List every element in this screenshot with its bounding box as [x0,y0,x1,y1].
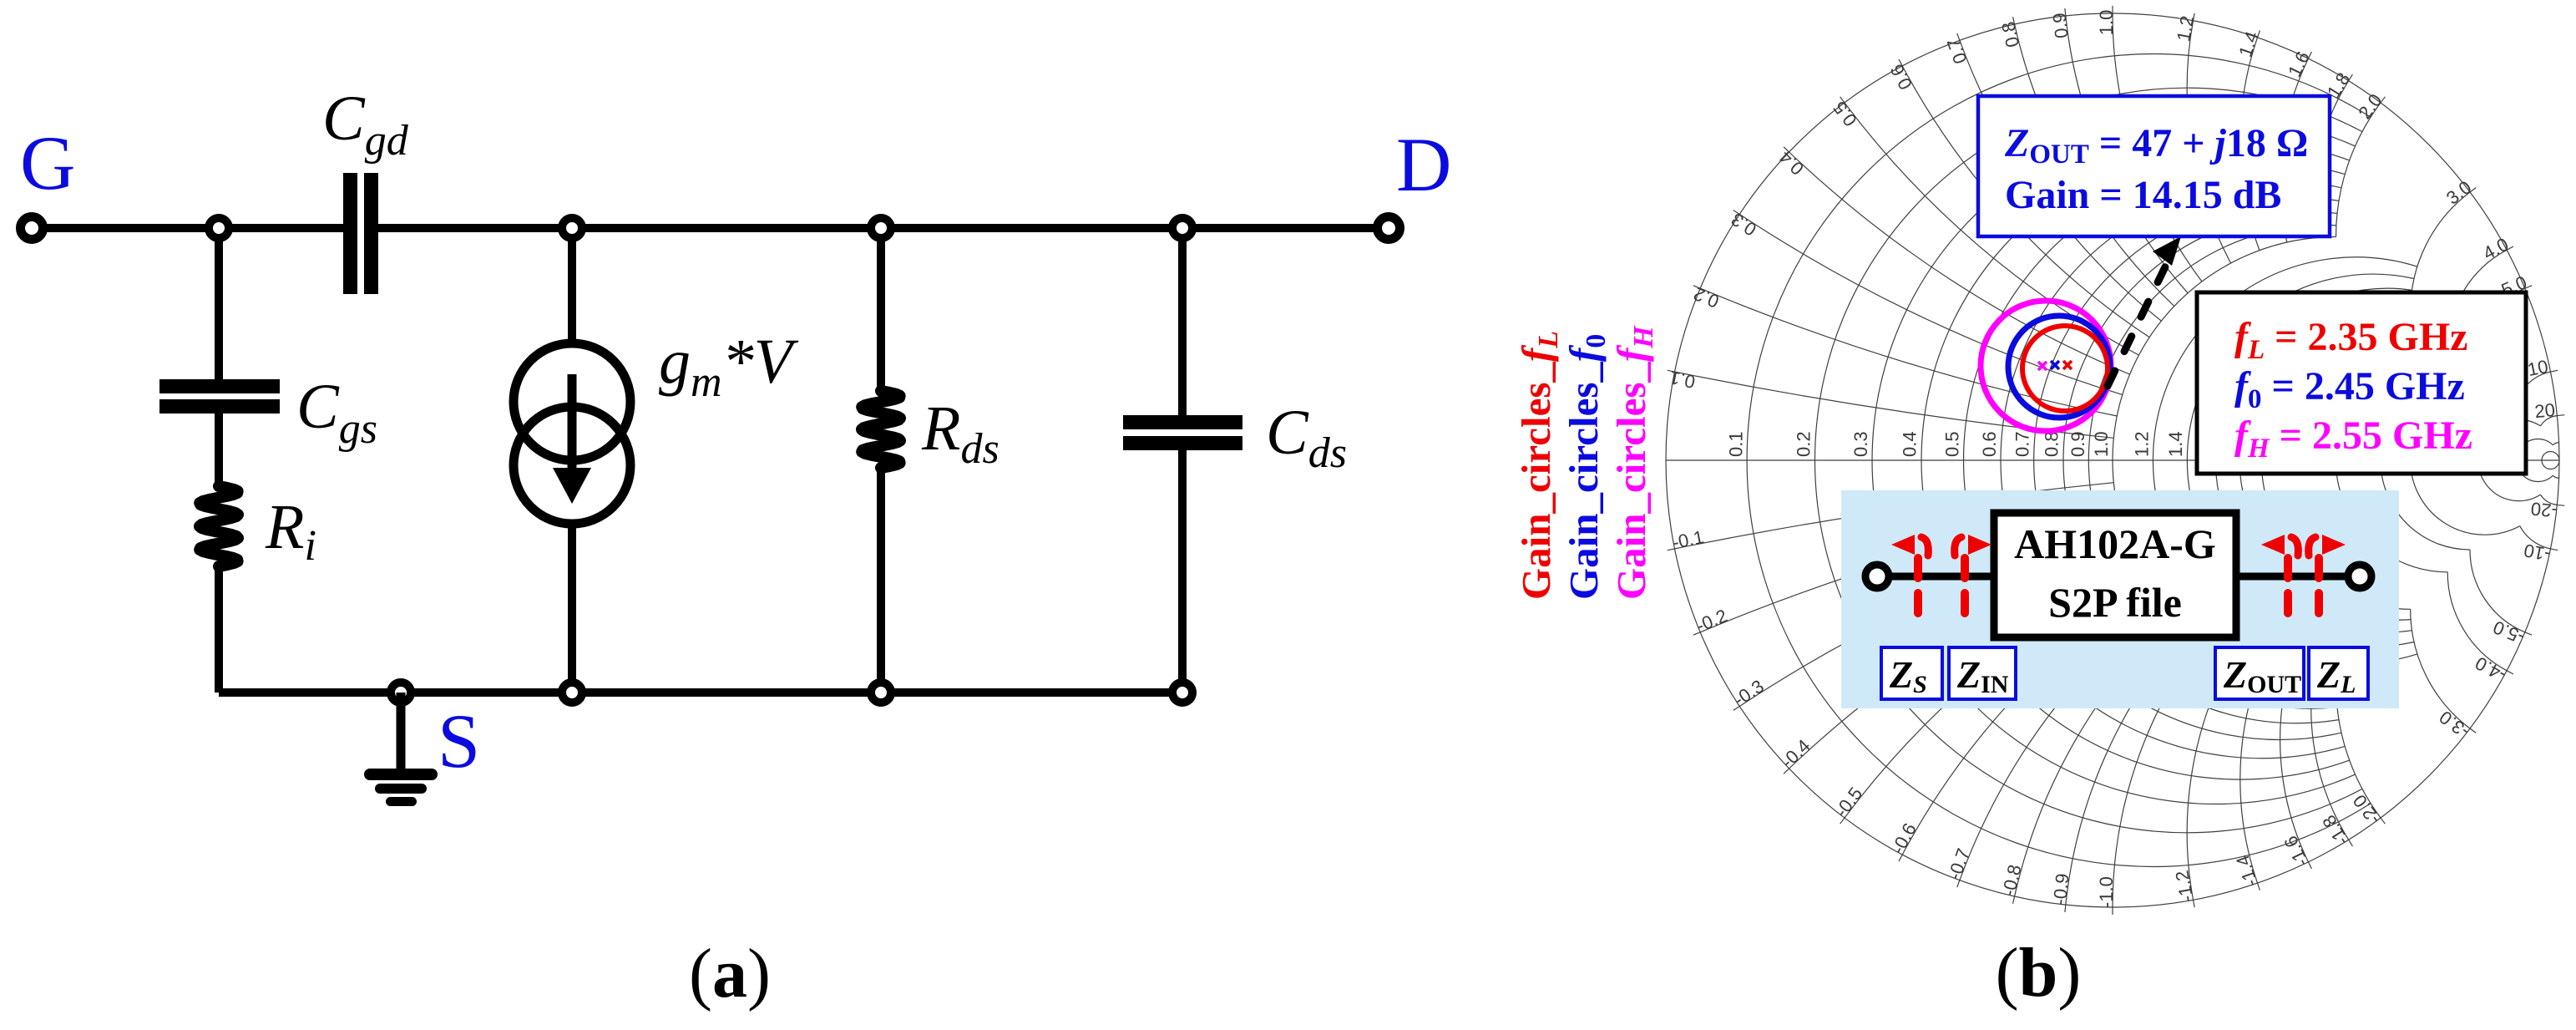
gain circle f0 blue [2008,316,2110,418]
svg-text:(b): (b) [1996,934,2082,1012]
svg-text:-20: -20 [2530,498,2558,521]
svg-text:f0 = 2.45 GHz: f0 = 2.45 GHz [2234,364,2465,414]
svg-text:0.2: 0.2 [1793,431,1814,457]
reference plane ZOUT [2261,535,2298,627]
node top Rds [871,218,891,238]
svg-text:0.9: 0.9 [2049,12,2072,39]
smith chart resistance axis [1666,459,2559,461]
wire top G rail [32,224,1389,232]
inset wire output [2236,573,2360,581]
reference plane ZS [1891,535,1928,627]
smith chart reactance labels [1668,10,2558,908]
svg-text:S2P file: S2P file [2048,579,2182,626]
wire Rds branch [877,228,885,693]
marker fH [2038,362,2047,370]
legend Gain_circles_f0 [1561,334,1612,600]
svg-text:Gain_circles_f0: Gain_circles_f0 [1561,334,1612,600]
svg-text:G: G [20,120,75,205]
label Zout value [2004,121,2308,217]
label f0 [2234,364,2465,414]
node bottom Rds [871,682,891,703]
inset schematic background [1841,490,2399,708]
resistor Ri [200,486,238,566]
wire left branch vertical [215,228,223,693]
svg-text:(a): (a) [689,935,771,1012]
smith chart rim [1666,13,2559,907]
capacitor Cds [1123,415,1242,450]
smith chart rim ticks [1668,6,2565,915]
label Ri [265,492,316,570]
label box ZS [1881,647,1942,699]
svg-text:20: 20 [2533,399,2556,422]
label Rds [921,393,1000,473]
svg-text:Gain_circles_fH: Gain_circles_fH [1608,325,1659,600]
svg-text:AH102A-G: AH102A-G [2014,520,2216,567]
marker fL [2063,361,2072,369]
svg-text:-0.9: -0.9 [2049,872,2073,906]
reference plane ZIN [1955,535,1991,627]
smith chart R circles [1747,54,2559,867]
svg-text:0.8: 0.8 [2042,431,2062,457]
svg-text:0.6: 0.6 [1979,431,2000,457]
label terminal G [20,120,75,205]
svg-text:Cds: Cds [1266,398,1347,477]
legend Gain_circles_fH [1608,325,1659,600]
inset terminal output [2348,565,2371,588]
svg-text:Rds: Rds [921,393,1000,473]
wire bottom S rail [219,688,1182,697]
svg-text:1.0: 1.0 [2096,10,2117,36]
node bottom current source [562,682,582,703]
gain circle fL red [2022,326,2108,411]
Zout result box [1978,96,2330,236]
caption (a) [689,935,771,1012]
node G junction [209,218,229,238]
wire Cds branch [1178,228,1187,693]
label Cds [1266,398,1347,477]
node top Cds [1172,218,1192,238]
svg-text:1.2: 1.2 [2132,431,2153,457]
svg-text:fH = 2.55 GHz: fH = 2.55 GHz [2234,414,2472,464]
svg-text:1.0: 1.0 [2091,431,2112,457]
svg-text:1.4: 1.4 [2165,431,2186,457]
svg-text:Gain = 14.15 dB: Gain = 14.15 dB [2005,173,2281,217]
svg-text:0.4: 0.4 [1900,431,1921,457]
smith chart resistance axis labels [1725,431,2186,457]
svg-text:0.9: 0.9 [2067,431,2088,457]
capacitor Cgs [159,379,280,414]
wire current source branch [568,228,576,693]
caption (b) [1996,934,2082,1012]
inset device box AH102A-G [1994,513,2236,637]
inset wire input [1877,573,1994,581]
svg-text:0.1: 0.1 [1725,431,1746,457]
svg-text:gm*V: gm*V [659,327,799,406]
dashed arrow to Zout box [2108,236,2181,386]
label fL [2234,315,2467,365]
node top current source [562,218,582,238]
label terminal S [438,698,480,784]
svg-text:0.5: 0.5 [1942,431,1963,457]
node S junction [391,682,411,703]
label box ZIN [1949,647,2016,699]
label Cgd [322,84,409,165]
terminal G [21,217,43,240]
marker f0 [2051,361,2059,369]
svg-text:0.3: 0.3 [1850,431,1871,457]
current source gm*V [514,343,630,524]
label gm*V [659,327,799,406]
svg-text:Cgs: Cgs [296,372,377,453]
inset terminal input [1865,565,1889,588]
label fH [2234,414,2472,464]
frequency box [2197,292,2526,474]
resistor Rds [862,391,900,468]
reference plane ZL [2309,535,2346,627]
svg-text:D: D [1396,122,1451,207]
svg-text:0.7: 0.7 [2012,431,2033,457]
smith chart X arcs [1675,13,2559,907]
legend Gain_circles_fL [1513,331,1564,600]
node bottom Cds [1172,682,1192,703]
svg-text:-1.0: -1.0 [2096,876,2117,908]
label terminal D [1396,122,1451,207]
svg-text:Cgd: Cgd [322,84,409,165]
svg-text:Gain_circles_fL: Gain_circles_fL [1513,331,1564,600]
svg-text:Ri: Ri [265,492,316,570]
label box ZL [2309,647,2368,699]
svg-text:S: S [438,698,480,784]
capacitor Cgd [343,173,378,294]
ground [364,693,438,806]
svg-text:fL = 2.35 GHz: fL = 2.35 GHz [2234,315,2467,365]
svg-text:10: 10 [2526,356,2550,380]
terminal D [1378,217,1400,240]
gain circle fH magenta [1981,301,2111,431]
label box ZOUT [2215,647,2304,699]
label Cgs [296,372,377,453]
